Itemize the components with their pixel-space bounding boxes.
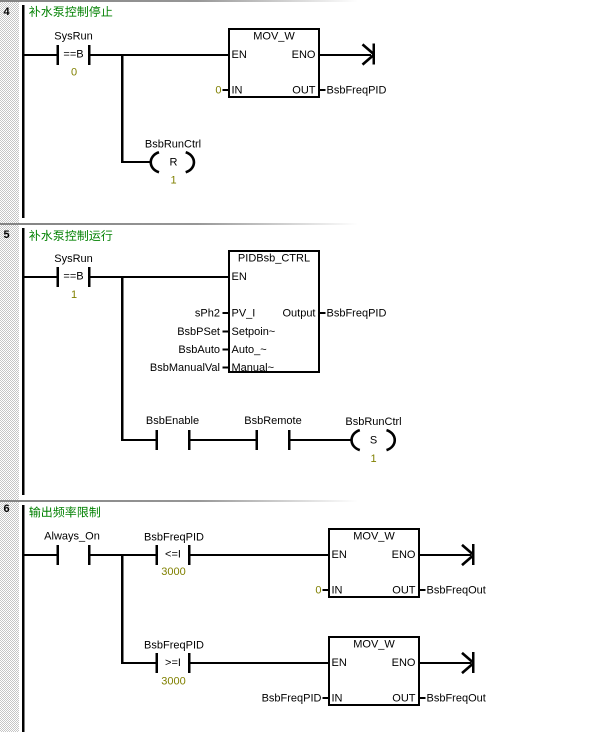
contact Always_On bbox=[57, 545, 60, 565]
svg-text:1: 1 bbox=[370, 453, 376, 465]
svg-text:Auto_~: Auto_~ bbox=[232, 344, 267, 356]
svg-text:OUT: OUT bbox=[392, 585, 416, 597]
svg-text:BsbFreqPID: BsbFreqPID bbox=[144, 640, 204, 652]
contact BsbRemote bbox=[256, 430, 259, 450]
wire rail to contact Always_On bbox=[24, 554, 57, 556]
contact SysRun ==B n5 bbox=[57, 267, 60, 287]
box PIDBsb_CTRL bbox=[229, 251, 319, 372]
branch wire down network 5 bbox=[121, 277, 123, 441]
wire Always_On to comparison bbox=[91, 554, 157, 556]
svg-text:BsbFreqOut: BsbFreqOut bbox=[427, 693, 486, 705]
left power rail network 4 bbox=[22, 5, 24, 218]
svg-text:3000: 3000 bbox=[161, 566, 185, 578]
box MOV_W network 4 bbox=[229, 29, 319, 97]
svg-text:PV_I: PV_I bbox=[232, 308, 256, 320]
wire BsbEnable to BsbRemote bbox=[191, 439, 257, 441]
contact BsbFreqPID >=I bbox=[156, 653, 159, 673]
network 6 title 输出频率限制 bbox=[29, 506, 100, 517]
box MOV_W n6 first bbox=[329, 529, 419, 597]
svg-text:BsbRunCtrl: BsbRunCtrl bbox=[345, 416, 401, 428]
svg-text:EN: EN bbox=[232, 49, 247, 61]
svg-text:IN: IN bbox=[232, 85, 243, 97]
branch wire to coil bbox=[121, 161, 151, 163]
coil BsbRunCtrl set (S) bbox=[352, 430, 360, 450]
svg-text:Setpoin~: Setpoin~ bbox=[232, 326, 276, 338]
branch wire down from node bbox=[121, 55, 123, 163]
contact SysRun ==B bbox=[57, 45, 60, 65]
svg-text:1: 1 bbox=[71, 289, 77, 301]
wire cmp2 to MOV_W EN b2 bbox=[191, 662, 330, 664]
pin stub Output bbox=[320, 312, 326, 314]
svg-text:S: S bbox=[370, 435, 377, 447]
network 4 title 补水泵控制停止 bbox=[29, 6, 112, 17]
wire cmp1 to MOV_W EN bbox=[191, 554, 330, 556]
svg-text:EN: EN bbox=[232, 271, 247, 283]
IN pin stub b2 bbox=[323, 697, 329, 699]
svg-text:SysRun: SysRun bbox=[54, 31, 93, 43]
network 5 title 补水泵控制运行 bbox=[29, 230, 112, 241]
OUT pin stub b2 bbox=[420, 697, 426, 699]
OUT pin stub bbox=[320, 89, 326, 91]
IN pin stub bbox=[223, 89, 229, 91]
svg-text:IN: IN bbox=[332, 693, 343, 705]
wire BsbRemote to coil S bbox=[291, 439, 351, 441]
svg-text:R: R bbox=[170, 157, 178, 169]
svg-text:EN: EN bbox=[332, 657, 347, 669]
svg-text:==B: ==B bbox=[63, 49, 83, 61]
line continuation arrow n6 second bbox=[462, 653, 474, 673]
svg-text:ENO: ENO bbox=[392, 657, 416, 669]
line continuation arrow network 4 bbox=[363, 44, 375, 64]
svg-text:ENO: ENO bbox=[392, 549, 416, 561]
wire ENO to arrow b1 bbox=[420, 554, 471, 556]
svg-text:sPh2: sPh2 bbox=[195, 308, 220, 320]
svg-text:BsbManualVal: BsbManualVal bbox=[150, 362, 220, 374]
svg-text:3000: 3000 bbox=[161, 676, 185, 688]
svg-text:OUT: OUT bbox=[392, 693, 416, 705]
svg-text:BsbFreqPID: BsbFreqPID bbox=[144, 532, 204, 544]
box MOV_W n6 second bbox=[329, 637, 419, 705]
wire contact to PIDBsb_CTRL EN bbox=[91, 276, 230, 278]
svg-text:BsbFreqOut: BsbFreqOut bbox=[427, 585, 486, 597]
svg-text:==B: ==B bbox=[63, 271, 83, 283]
contact BsbEnable bbox=[156, 430, 159, 450]
pin stub Setpoin bbox=[223, 331, 229, 333]
svg-text:0: 0 bbox=[71, 67, 77, 79]
svg-text:6: 6 bbox=[4, 503, 10, 515]
svg-text:Output: Output bbox=[282, 308, 315, 320]
wire rail to contact SysRun n5 bbox=[24, 276, 57, 278]
left power rail network 6 bbox=[22, 505, 24, 732]
left power rail network 5 bbox=[22, 228, 24, 495]
svg-text:BsbFreqPID: BsbFreqPID bbox=[327, 85, 387, 97]
wire ENO to arrow b2 bbox=[420, 662, 471, 664]
svg-text:4: 4 bbox=[4, 6, 11, 18]
svg-text:MOV_W: MOV_W bbox=[353, 531, 395, 543]
branch wire down network 6 bbox=[121, 555, 123, 664]
wire contact to MOV_W EN bbox=[91, 54, 230, 56]
pin stub Manual bbox=[223, 367, 229, 369]
contact BsbFreqPID <=I bbox=[156, 545, 159, 565]
separator above network 6 bbox=[0, 500, 358, 502]
wire branch to cmp2 bbox=[121, 662, 156, 664]
svg-text:BsbRunCtrl: BsbRunCtrl bbox=[145, 139, 201, 151]
pin stub PV_I bbox=[223, 312, 229, 314]
svg-text:MOV_W: MOV_W bbox=[253, 31, 295, 43]
svg-text:PIDBsb_CTRL: PIDBsb_CTRL bbox=[238, 253, 310, 265]
svg-text:EN: EN bbox=[332, 549, 347, 561]
svg-text:BsbAuto: BsbAuto bbox=[178, 344, 220, 356]
top edge line bbox=[0, 0, 358, 2]
wire branch to contact BsbEnable bbox=[121, 439, 156, 441]
network list gutter bbox=[0, 0, 19, 732]
svg-text:SysRun: SysRun bbox=[54, 253, 93, 265]
svg-text:0: 0 bbox=[315, 585, 321, 597]
svg-text:<=I: <=I bbox=[165, 549, 181, 561]
svg-text:0: 0 bbox=[215, 85, 221, 97]
svg-text:MOV_W: MOV_W bbox=[353, 639, 395, 651]
OUT pin stub b1 bbox=[420, 589, 426, 591]
svg-text:BsbPSet: BsbPSet bbox=[177, 326, 220, 338]
coil BsbRunCtrl reset (R) bbox=[151, 152, 159, 172]
IN pin stub b1 bbox=[323, 589, 329, 591]
svg-text:BsbEnable: BsbEnable bbox=[146, 415, 199, 427]
svg-text:Always_On: Always_On bbox=[44, 531, 100, 543]
wire rail to contact SysRun bbox=[24, 54, 57, 56]
separator above network 5 bbox=[0, 223, 358, 225]
svg-text:5: 5 bbox=[4, 229, 10, 241]
svg-text:OUT: OUT bbox=[292, 85, 316, 97]
svg-text:BsbFreqPID: BsbFreqPID bbox=[327, 308, 387, 320]
pin stub Auto bbox=[223, 349, 229, 351]
svg-text:ENO: ENO bbox=[292, 49, 316, 61]
svg-text:IN: IN bbox=[332, 585, 343, 597]
svg-text:BsbRemote: BsbRemote bbox=[244, 415, 301, 427]
line continuation arrow n6 first bbox=[462, 545, 474, 565]
svg-text:BsbFreqPID: BsbFreqPID bbox=[262, 693, 322, 705]
wire ENO to arrow bbox=[320, 54, 371, 56]
svg-text:1: 1 bbox=[170, 175, 176, 187]
svg-text:Manual~: Manual~ bbox=[232, 362, 275, 374]
svg-text:>=I: >=I bbox=[165, 657, 181, 669]
